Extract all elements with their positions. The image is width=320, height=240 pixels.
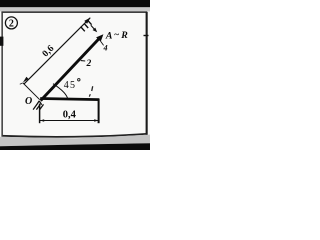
extension line vertex to O [23,83,40,100]
svg-text:0,4: 0,4 [63,109,77,120]
reaction arrow R shaft [91,25,95,29]
dimension arrowhead top [84,17,90,23]
tick on right border [144,35,149,37]
wall hatch 1 [81,27,85,32]
arrowhead at A [96,34,103,42]
artifact dot lower [89,94,90,96]
ground baseline [40,99,99,100]
svg-text:4: 4 [102,43,107,52]
dimension arrowhead bottom [23,77,29,83]
frame bottom border [2,134,147,137]
reaction arrow R head [93,28,98,33]
vertex tail [20,83,23,84]
pin stroke right under O [39,101,42,105]
support hatch 3 under O [40,104,44,109]
svg-text:45: 45 [64,80,76,91]
artifact stroke upper [92,86,93,91]
dimension line 0,4 [40,120,98,122]
wall / dimension line 0,6 [24,18,90,84]
svg-text:2: 2 [9,19,14,30]
dimension arrow left [40,119,44,121]
corner vertical extension right [98,99,100,123]
leader dash for label 2 [81,60,85,62]
bottom page-edge gray band [0,135,150,147]
svg-text:R: R [120,30,128,41]
left edge black blob [0,37,3,46]
wall hatch 3 [87,20,91,25]
task number circle [5,17,17,29]
angle arc 45 [53,84,68,100]
dimension arrow right [94,119,98,121]
bottom page-edge black band [0,143,150,150]
support hatch 1 under O [33,104,37,109]
wall hatch 2 [84,23,88,28]
svg-text:A: A [105,30,113,41]
frame top border [1,11,147,13]
degree mark [78,79,80,81]
frame left border [1,13,3,137]
svg-text:2: 2 [86,59,92,69]
paper background [0,0,150,150]
svg-text:~: ~ [114,30,119,40]
top page-edge gray band [0,7,150,11]
extension line below O [39,104,41,124]
frame right border [146,12,148,135]
top page-edge black band [0,0,150,7]
bar OA [41,38,100,101]
leader line to label 4 [101,41,104,45]
support hatch 2 under O [36,104,40,109]
pin stroke left under O [37,101,40,105]
svg-text:O: O [25,96,32,107]
